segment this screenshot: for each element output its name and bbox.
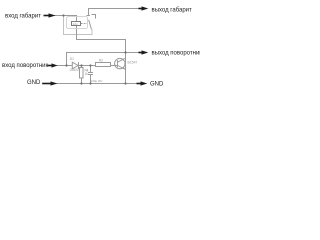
svg-text:GND: GND xyxy=(150,82,164,88)
svg-text:выход поворотник: выход поворотник xyxy=(152,50,201,56)
svg-text:BC547: BC547 xyxy=(128,60,138,64)
svg-text:GND: GND xyxy=(27,80,41,86)
svg-text:вход габарит: вход габарит xyxy=(5,14,41,20)
svg-text:D1: D1 xyxy=(70,57,74,61)
svg-text:вход поворотник: вход поворотник xyxy=(2,63,48,69)
svg-text:выход габарит: выход габарит xyxy=(152,7,193,13)
svg-text:100μ 25v: 100μ 25v xyxy=(91,79,103,83)
svg-text:1N4007: 1N4007 xyxy=(69,68,80,72)
svg-text:+: + xyxy=(86,69,88,73)
svg-text:R2: R2 xyxy=(99,59,103,63)
svg-text:12v: 12v xyxy=(73,22,78,26)
